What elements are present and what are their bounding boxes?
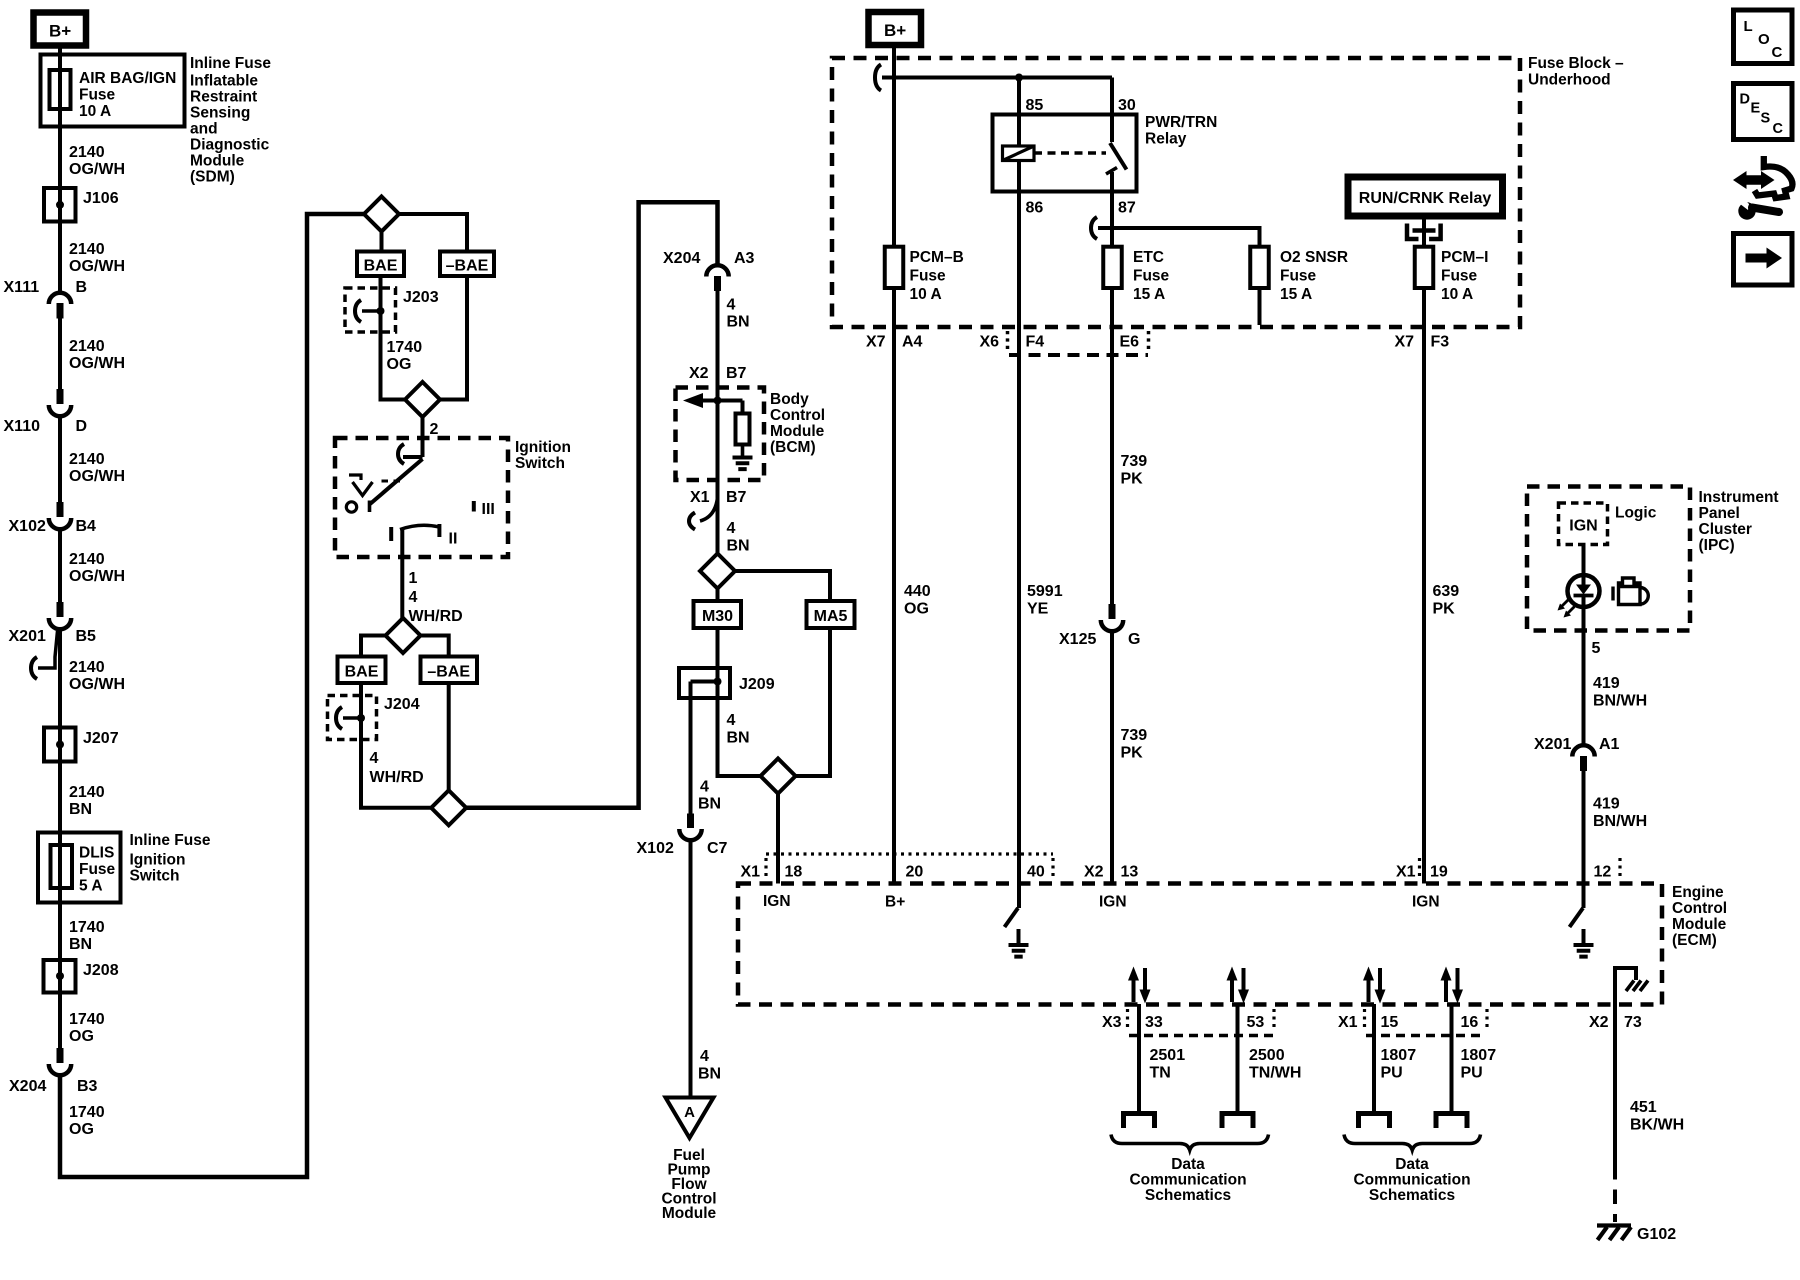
svg-text:–BAE: –BAE: [446, 258, 489, 275]
svg-text:Communication: Communication: [1353, 1172, 1470, 1189]
svg-text:Module: Module: [1672, 916, 1727, 933]
svg-text:15 A: 15 A: [1133, 286, 1165, 303]
svg-text:Diagnostic: Diagnostic: [190, 137, 270, 154]
svg-text:Ignition: Ignition: [515, 439, 571, 456]
svg-text:X204: X204: [9, 1078, 46, 1095]
svg-text:2140: 2140: [69, 551, 105, 568]
ground G102: [1597, 1226, 1676, 1244]
label 2140 OG/WH: [69, 551, 125, 585]
wire D3 to BAE (2nd): [361, 636, 386, 657]
wire D5 to MA5: [735, 571, 830, 601]
Body Control Module dashed box: [676, 388, 765, 481]
svg-text:BN: BN: [727, 538, 750, 555]
svg-text:II: II: [449, 531, 458, 548]
svg-text:Cluster: Cluster: [1699, 521, 1752, 538]
pin 20 labels: [885, 864, 923, 911]
label 440 OG: [904, 583, 931, 618]
svg-text:5 A: 5 A: [79, 878, 103, 895]
svg-text:J106: J106: [83, 190, 119, 207]
label 639 PK: [1433, 583, 1460, 618]
svg-text:III: III: [482, 501, 495, 518]
svg-text:2140: 2140: [69, 784, 105, 801]
wire ignition switch to D3: [400, 530, 404, 619]
svg-text:ETC: ETC: [1133, 249, 1164, 266]
svg-text:419: 419: [1593, 796, 1620, 813]
svg-text:IGN: IGN: [1412, 894, 1440, 911]
svg-text:PK: PK: [1121, 471, 1144, 488]
svg-text:1807: 1807: [1381, 1047, 1417, 1064]
wire -BAE2 to D4: [447, 683, 451, 791]
connector labels X6 F4 E6: [980, 334, 1140, 351]
terminal box BAE (2nd): [338, 657, 386, 684]
svg-text:Fuse Block –: Fuse Block –: [1528, 55, 1624, 72]
junction diamond D3: [386, 618, 421, 653]
wire BAE to J203 to D2: [381, 276, 405, 400]
svg-text:A1: A1: [1599, 736, 1620, 753]
svg-text:Module: Module: [662, 1205, 717, 1222]
svg-text:J203: J203: [403, 289, 439, 306]
svg-text:BN: BN: [727, 730, 750, 747]
svg-text:BN/WH: BN/WH: [1593, 813, 1647, 830]
svg-text:16: 16: [1461, 1014, 1479, 1031]
label 2501 TN: [1150, 1047, 1186, 1082]
relay link dashed: [1034, 151, 1106, 154]
note: Fuse Block - Underhood: [1528, 55, 1624, 89]
note: Data Communication Schematics (2): [1353, 1156, 1470, 1204]
Fuse Block - Underhood dashed box: [832, 58, 1520, 327]
svg-text:J204: J204: [384, 696, 420, 713]
hook clip at 87 junction: [1098, 226, 1112, 230]
svg-text:86: 86: [1026, 200, 1044, 217]
relay socket terminal: [1407, 216, 1441, 327]
svg-text:X201: X201: [1534, 736, 1571, 753]
svg-text:IGN: IGN: [763, 893, 791, 910]
contact O circle: [346, 502, 356, 512]
svg-text:33: 33: [1145, 1014, 1163, 1031]
contact I tick: [389, 527, 393, 541]
labels X3 33 53: [1102, 1014, 1264, 1031]
wire BAE2 through J204 to D4: [361, 683, 431, 808]
svg-text:4: 4: [727, 520, 736, 537]
svg-text:E: E: [1751, 101, 1761, 117]
terminal box -BAE (2nd): [421, 657, 478, 684]
svg-text:O2 SNSR: O2 SNSR: [1280, 249, 1348, 266]
wire X110 to X102: [58, 416, 62, 502]
svg-text:J209: J209: [739, 676, 775, 693]
wire D1 to -BAE: [399, 214, 467, 252]
fuel pump triangle terminal A: [666, 1098, 714, 1139]
wire M30 to J209: [716, 628, 720, 668]
connector labels X7 F3: [1395, 334, 1450, 351]
svg-text:4: 4: [727, 712, 736, 729]
svg-text:B4: B4: [76, 518, 97, 535]
label 1740 OG: [69, 1104, 105, 1138]
svg-text:X7: X7: [1395, 334, 1415, 351]
svg-text:OG/WH: OG/WH: [69, 676, 125, 693]
wire B+ to SDM fuse: [58, 46, 62, 71]
svg-text:2140: 2140: [69, 451, 105, 468]
label 419 BN/WH (upper): [1593, 675, 1647, 710]
wire D1 to BAE: [380, 232, 384, 252]
note: Instrument Panel Cluster (IPC): [1699, 489, 1779, 554]
svg-text:Instrument: Instrument: [1699, 489, 1779, 506]
label 1740 OG: [69, 1011, 105, 1045]
svg-text:BN: BN: [69, 936, 92, 953]
connector X1 dotted boundary (data): [1365, 1009, 1488, 1036]
connector X102 pin B4: [9, 502, 97, 535]
svg-text:OG: OG: [69, 1121, 94, 1138]
svg-text:(BCM): (BCM): [770, 439, 816, 456]
svg-text:1807: 1807: [1461, 1047, 1497, 1064]
svg-text:C: C: [1773, 121, 1784, 137]
svg-text:Communication: Communication: [1129, 1172, 1246, 1189]
svg-text:OG/WH: OG/WH: [69, 568, 125, 585]
connector X6 dotted boundary: [1008, 331, 1149, 355]
note: Inline Fuse / Ignition Switch: [130, 832, 211, 885]
label 2140 OG/WH: [69, 144, 125, 178]
svg-text:X1: X1: [741, 864, 761, 881]
pin 12 internal ground: [1574, 929, 1594, 957]
check engine icon: [1613, 578, 1648, 605]
svg-text:O: O: [1758, 31, 1770, 48]
wire D2 to ignition switch pin 2: [421, 417, 425, 457]
wire J209 to D6: [718, 698, 761, 776]
svg-text:Underhood: Underhood: [1528, 72, 1611, 89]
svg-text:87: 87: [1118, 200, 1136, 217]
svg-text:and: and: [190, 121, 218, 138]
hook clip (feed continues): [882, 76, 894, 80]
svg-text:B+: B+: [884, 21, 906, 40]
legend DESC box: [1734, 84, 1793, 140]
pin 40 internal switch: [1017, 884, 1021, 909]
svg-text:IGN: IGN: [1099, 894, 1127, 911]
PCM-B fuse 10A: [885, 247, 964, 303]
hook: circuit continues (at X201 B5): [31, 631, 58, 679]
label 451 BK/WH: [1630, 1099, 1684, 1134]
svg-text:Switch: Switch: [515, 455, 565, 472]
svg-text:BK/WH: BK/WH: [1630, 1117, 1684, 1134]
svg-text:4: 4: [370, 750, 379, 767]
label 4 BN: [698, 1048, 721, 1083]
svg-text:X102: X102: [637, 840, 674, 857]
battery B+ terminal (left): [34, 13, 87, 46]
junction diamond D2: [405, 382, 440, 417]
wire D5 to M30: [716, 589, 720, 602]
wire D4 right, up and over to X204 A3: [466, 202, 718, 808]
wire J106 to X111: [58, 222, 62, 293]
pivot tick near O: [368, 501, 372, 513]
label 4 BN: [727, 712, 750, 747]
svg-text:Fuse: Fuse: [79, 861, 116, 878]
svg-text:53: 53: [1247, 1014, 1265, 1031]
svg-text:BN/WH: BN/WH: [1593, 693, 1647, 710]
svg-text:18: 18: [785, 864, 803, 881]
svg-text:10 A: 10 A: [79, 103, 111, 120]
svg-text:Fuse: Fuse: [1133, 268, 1170, 285]
splice J209: [679, 668, 775, 698]
label 2140 OG/WH: [69, 241, 125, 275]
svg-text:1740: 1740: [69, 1011, 105, 1028]
pin 40 internal ground: [1009, 929, 1029, 957]
connector X201 pin A1: [1534, 736, 1620, 771]
svg-text:PWR/TRN: PWR/TRN: [1145, 114, 1217, 131]
svg-text:40: 40: [1027, 864, 1045, 881]
junction diamond D6: [761, 759, 796, 794]
svg-text:739: 739: [1121, 727, 1148, 744]
svg-text:B3: B3: [77, 1078, 98, 1095]
labels X1 / B7: [690, 489, 747, 506]
splice J207: [44, 728, 119, 762]
label 1807 PU (pin 15): [1381, 1047, 1417, 1082]
connector X204 pin B3: [9, 1048, 98, 1095]
wire 87 through ETC fuse: [1110, 192, 1114, 328]
label 1740 OG: [387, 339, 423, 373]
Instrument Panel Cluster dashed box: [1527, 487, 1690, 631]
svg-text:PCM–B: PCM–B: [910, 249, 964, 266]
wire 451 BK/WH to G102: [1613, 1004, 1617, 1165]
svg-text:(IPC): (IPC): [1699, 537, 1735, 554]
wire X201 to J207: [58, 629, 62, 728]
wire IPC to X201 A1: [1582, 631, 1586, 746]
svg-text:PK: PK: [1121, 745, 1144, 762]
BCM internal ground: [733, 458, 753, 470]
connector X125 pin G: [1059, 604, 1140, 648]
svg-text:F3: F3: [1431, 334, 1450, 351]
pin 73 internal wire to case ground: [1615, 968, 1648, 1004]
svg-text:Switch: Switch: [130, 868, 180, 885]
labels X1 15 16: [1338, 1014, 1478, 1031]
contact III tick: [472, 501, 476, 512]
svg-text:X3: X3: [1102, 1014, 1122, 1031]
label 419 BN/WH (lower): [1593, 796, 1647, 831]
svg-text:X1: X1: [690, 489, 710, 506]
svg-text:Relay: Relay: [1145, 131, 1187, 148]
terminal box -BAE: [440, 252, 494, 277]
svg-text:PU: PU: [1381, 1065, 1403, 1082]
svg-text:Module: Module: [190, 153, 245, 170]
svg-text:BN: BN: [727, 314, 750, 331]
pin 18 labels: [741, 864, 803, 911]
svg-text:B7: B7: [726, 365, 747, 382]
pin 40 labels: [1027, 864, 1045, 881]
splice J204: [328, 696, 420, 740]
svg-text:X201: X201: [9, 628, 46, 645]
svg-text:2140: 2140: [69, 241, 105, 258]
wire IGN to LED: [1582, 545, 1586, 576]
svg-text:J208: J208: [83, 962, 119, 979]
svg-text:1740: 1740: [387, 339, 423, 356]
junction dot at 85 branch: [1015, 74, 1023, 82]
relay switch blade pin 30-87: [1110, 115, 1114, 143]
svg-text:B: B: [76, 279, 88, 296]
svg-text:B7: B7: [726, 489, 747, 506]
switch blade: [370, 459, 423, 504]
svg-text:30: 30: [1118, 97, 1136, 114]
wire MA5 to D6: [796, 628, 831, 776]
svg-text:419: 419: [1593, 675, 1620, 692]
pin 19 labels: [1396, 858, 1448, 911]
IGN logic box: [1559, 503, 1608, 545]
svg-text:A3: A3: [734, 250, 755, 267]
splice J208: [44, 960, 119, 993]
svg-text:Engine: Engine: [1672, 884, 1724, 901]
svg-text:TN/WH: TN/WH: [1249, 1065, 1301, 1082]
svg-text:Sensing: Sensing: [190, 105, 250, 122]
label 1807 PU (pin 16): [1461, 1047, 1497, 1082]
svg-text:X204: X204: [663, 250, 700, 267]
svg-text:AIR BAG/IGN: AIR BAG/IGN: [79, 70, 176, 87]
svg-text:85: 85: [1026, 97, 1044, 114]
ignition switch assembly: [335, 438, 571, 557]
wire 639 PK: PCM-I to ECM 19: [1422, 327, 1426, 884]
wire DLIS to J208: [58, 903, 62, 961]
wire 440 OG: PCM-B to ECM 20: [892, 327, 896, 884]
PWR/TRN relay: [993, 97, 1218, 217]
wire C7 to fuel pump module: [689, 840, 693, 1098]
svg-text:PK: PK: [1433, 601, 1456, 618]
note: Data Communication Schematics (1): [1129, 1156, 1246, 1204]
connector X1 dotted boundary line: [766, 854, 1053, 880]
wire D6 to ECM pin 18: [776, 794, 780, 884]
svg-text:D: D: [1740, 92, 1750, 108]
label 739 PK (lower): [1121, 727, 1148, 762]
svg-text:Control: Control: [1672, 900, 1727, 917]
legend schematic-navigation icon: [1733, 156, 1792, 220]
wire X102 to X201: [58, 529, 62, 602]
wire X111 to X110: [58, 319, 62, 390]
terminal box M30: [694, 601, 742, 628]
svg-text:Fuse: Fuse: [1280, 268, 1317, 285]
connector X111 pin B: [4, 279, 88, 319]
svg-text:DLIS: DLIS: [79, 845, 114, 862]
svg-text:B+: B+: [885, 894, 905, 911]
ECM pin 15 data wire with arrows and fork: [1359, 967, 1390, 1129]
svg-text:739: 739: [1121, 453, 1148, 470]
indicator LED (MIL): [1568, 575, 1600, 631]
svg-text:X7: X7: [866, 334, 886, 351]
connector X102 pin C7: [637, 814, 728, 858]
brace: data pins 15/16 group: [1344, 1135, 1481, 1151]
svg-text:A: A: [684, 1104, 695, 1121]
svg-text:4: 4: [727, 297, 736, 314]
label 2500 TN/WH: [1249, 1047, 1301, 1082]
contact II tick: [437, 524, 441, 537]
note: Engine Control Module (ECM): [1672, 884, 1727, 949]
svg-text:C: C: [1772, 44, 1783, 61]
svg-text:OG: OG: [69, 1028, 94, 1045]
connector X3 dotted boundary: [1128, 1009, 1275, 1036]
svg-text:OG: OG: [387, 356, 412, 373]
svg-text:G102: G102: [1637, 1226, 1676, 1243]
svg-text:73: 73: [1624, 1014, 1642, 1031]
legend LOC box: [1734, 10, 1793, 64]
svg-text:C7: C7: [707, 840, 728, 857]
label 4 BN: [698, 779, 721, 813]
svg-text:10 A: 10 A: [1441, 286, 1473, 303]
svg-text:Schematics: Schematics: [1145, 1187, 1231, 1204]
wire fuse to J106: [58, 127, 62, 189]
terminal box MA5: [807, 601, 855, 628]
wire J208 to X204: [58, 993, 62, 1049]
svg-text:Fuse: Fuse: [1441, 268, 1478, 285]
svg-text:OG/WH: OG/WH: [69, 468, 125, 485]
svg-text:RUN/CRNK Relay: RUN/CRNK Relay: [1359, 190, 1492, 207]
svg-text:MA5: MA5: [814, 608, 848, 625]
svg-text:4: 4: [409, 589, 418, 606]
wire J207 to DLIS fuse: [58, 762, 62, 846]
wire B+ into fuse block: [892, 45, 896, 78]
svg-text:451: 451: [1630, 1099, 1657, 1116]
labels 1, 4, WH/RD: [409, 570, 463, 625]
connector X201 pin B5: [9, 602, 97, 645]
svg-text:B5: B5: [76, 628, 97, 645]
svg-text:Logic: Logic: [1615, 505, 1657, 522]
svg-text:A4: A4: [902, 334, 923, 351]
svg-text:2501: 2501: [1150, 1047, 1186, 1064]
BCM internal resistor: [736, 401, 750, 458]
wire BCM to D5: [716, 480, 720, 554]
wire through BCM: [716, 388, 720, 481]
junction diamond D5: [700, 554, 735, 589]
svg-text:F4: F4: [1026, 334, 1045, 351]
svg-text:Restraint: Restraint: [190, 89, 257, 106]
svg-text:X111: X111: [4, 279, 40, 296]
svg-text:X1: X1: [1396, 864, 1416, 881]
svg-text:X2: X2: [1084, 864, 1104, 881]
svg-text:X2: X2: [689, 365, 709, 382]
label 739 PK (upper): [1121, 453, 1148, 488]
labels X2 / B7: [689, 365, 747, 382]
svg-text:5: 5: [1592, 640, 1601, 657]
svg-text:OG/WH: OG/WH: [69, 161, 125, 178]
svg-text:G: G: [1128, 631, 1140, 648]
svg-text:Inline Fuse: Inline Fuse: [130, 832, 211, 849]
wire A1 to ECM 12: [1582, 771, 1586, 884]
svg-text:Data: Data: [1171, 1156, 1205, 1173]
relay coil wire pin 85: [1017, 115, 1021, 147]
svg-text:Module: Module: [770, 423, 825, 440]
label 2140 BN: [69, 784, 105, 818]
Engine Control Module dashed box: [738, 884, 1662, 1005]
label 5991 YE: [1027, 583, 1063, 618]
dotted link to blade: [382, 480, 389, 483]
label 4 WH/RD: [370, 750, 424, 786]
svg-text:WH/RD: WH/RD: [370, 769, 424, 786]
svg-text:15 A: 15 A: [1280, 286, 1312, 303]
svg-text:(ECM): (ECM): [1672, 932, 1717, 949]
svg-text:Control: Control: [770, 407, 825, 424]
svg-text:10 A: 10 A: [910, 286, 942, 303]
svg-text:Ignition: Ignition: [130, 852, 186, 869]
svg-text:BAE: BAE: [364, 258, 398, 275]
PCM-I fuse 10A: [1415, 247, 1489, 303]
ECM pin 33 data wire with arrows and fork: [1124, 967, 1155, 1129]
svg-text:OG/WH: OG/WH: [69, 258, 125, 275]
ETC fuse 15A: [1103, 247, 1169, 303]
svg-text:IGN: IGN: [1569, 518, 1597, 535]
svg-text:Panel: Panel: [1699, 505, 1740, 522]
svg-text:5991: 5991: [1027, 583, 1063, 600]
junction diamond D1: [364, 197, 399, 232]
wire 739 PK: E6 to X125: [1110, 327, 1114, 604]
wire X125 to ECM 13: [1110, 631, 1114, 884]
svg-text:1: 1: [409, 570, 418, 587]
svg-text:2140: 2140: [69, 338, 105, 355]
wire D3 to -BAE (2nd): [421, 636, 449, 657]
note: Inline Fuse / SDM: [190, 55, 271, 186]
ECM pin 16 data wire with arrows and fork: [1436, 967, 1467, 1129]
wire 86 to X6-F4: [1017, 192, 1021, 356]
